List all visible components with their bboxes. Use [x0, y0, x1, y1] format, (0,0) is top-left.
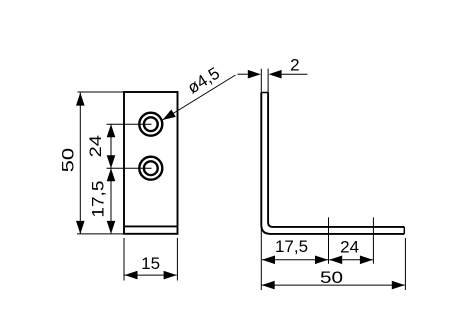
svg-text:15: 15: [141, 254, 160, 273]
side view: inner L contour: [268, 93, 404, 227]
dim 2: right arrow: [269, 70, 282, 79]
dim 17,5 bottom: dimension line: [262, 259, 328, 261]
leader 4,5: line: [163, 75, 236, 120]
hole H2 inner circle: [144, 161, 158, 175]
dim 24: dimension line: [110, 124, 112, 234]
hole position extension line A: [328, 217, 330, 263]
side view: left bottom extension line: [260, 225, 262, 290]
hole H1 inner circle: [144, 117, 158, 131]
dim 50 left: bottom extension line: [77, 233, 124, 235]
front view: bend line: [124, 225, 178, 227]
dim 24: up arrow: [107, 124, 116, 137]
svg-text:2: 2: [290, 55, 299, 74]
svg-text:17,5: 17,5: [89, 181, 108, 218]
hole H2 outer circle: [139, 157, 162, 180]
dim 15: dimension line: [125, 274, 177, 276]
hole H1 outer circle: [139, 113, 162, 136]
dim 17,5 bottom: left arrow: [262, 256, 275, 265]
svg-text:24: 24: [85, 135, 104, 157]
dim 15: left arrow: [125, 271, 138, 280]
hole H2 centerline: [107, 167, 152, 169]
dim 17,5: up arrow (lower of hourglass): [107, 168, 116, 181]
side view: right end cap: [403, 227, 405, 234]
dim 24: down arrow (upper of hourglass): [107, 155, 116, 168]
side view: outer L contour: [261, 93, 404, 234]
hole H1 centerline: [107, 123, 152, 125]
svg-text:17,5: 17,5: [275, 237, 308, 256]
dim 50 bottom: left arrow: [262, 281, 275, 290]
dim 50 left: dimension line: [79, 93, 81, 234]
dim 15: right arrow: [164, 271, 177, 280]
side view: top end cap: [261, 92, 268, 94]
dim 2: left tail line: [237, 73, 247, 75]
svg-text:50: 50: [59, 148, 78, 173]
dim 24 bottom: right arrow: [360, 256, 373, 265]
dim 24 bottom: left arrow: [329, 256, 342, 265]
leader 4,5: arrowhead: [160, 110, 176, 124]
dim 17,5: down arrow: [107, 221, 116, 234]
front view: plate outline: [124, 92, 178, 234]
dim 24 bottom: dimension line: [329, 259, 373, 261]
svg-text:24: 24: [340, 238, 359, 257]
dim 50 left: top extension line: [78, 91, 125, 93]
dim 15: left extension line: [123, 238, 125, 281]
hole position extension line B: [372, 217, 374, 263]
dim 50 bottom: right arrow: [392, 281, 405, 290]
dim 50 left: up arrow: [76, 93, 85, 106]
dim 2: left extension line above leg: [260, 69, 262, 93]
dim 2: right extension line above leg: [267, 69, 269, 93]
dim 17,5 bottom: right arrow: [315, 256, 328, 265]
dim 15: right extension line: [176, 238, 178, 281]
dim 50 bottom: dimension line: [262, 284, 405, 286]
side view: right bottom extension line: [404, 238, 406, 290]
dim 50 left: down arrow: [76, 221, 85, 234]
svg-text:50: 50: [320, 269, 343, 288]
dim 2: left arrow: [248, 70, 261, 79]
dim 2: right tail line: [282, 73, 308, 75]
